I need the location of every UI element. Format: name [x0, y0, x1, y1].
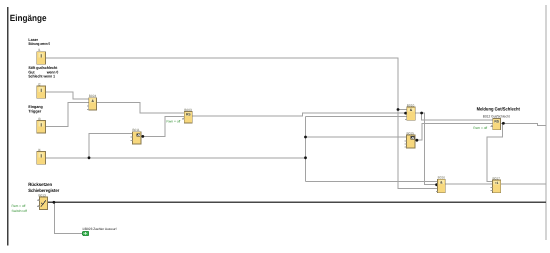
svg-text:I3: I3 [38, 117, 41, 121]
wire B012 feedback to B017.in1 [487, 123, 502, 181]
svg-text:B016: B016 [438, 176, 446, 180]
svg-text:Rem = off: Rem = off [473, 126, 487, 130]
junction B012 output [502, 122, 505, 125]
svg-text:Störung wenn 0: Störung wenn 0 [28, 41, 50, 46]
latching relay B012 (RS) [491, 119, 501, 130]
wire B024 out to B003.S [97, 103, 185, 113]
svg-text:Rem = off: Rem = off [166, 120, 180, 124]
wire B003 out to B010.in2 [192, 113, 407, 116]
junction at B010.in2 [404, 112, 407, 115]
svg-text:B003: B003 [184, 108, 192, 112]
junction B011 output [141, 135, 144, 138]
svg-text:B011: B011 [132, 128, 139, 132]
svg-text:Schieberegister: Schieberegister [28, 188, 59, 193]
wire B012 out to right edge [501, 123, 546, 125]
wire B011 out to B003.R [141, 116, 184, 136]
wire trigger to B010.in3 [306, 115, 407, 117]
wire trigger to B016.in1 [306, 180, 438, 182]
wire I4 trigger net horizontal [46, 157, 306, 159]
wire trigger to B015.in1 [306, 136, 407, 138]
wire trigger vertical [305, 116, 307, 181]
wire I2 to B024.in1 [46, 92, 89, 99]
svg-text:B013: B013 [38, 193, 46, 197]
svg-text:RS: RS [186, 113, 191, 117]
svg-text:Meldung Gut/Schlecht: Meldung Gut/Schlecht [477, 106, 521, 111]
wire branch I4 to B011.in1 [89, 134, 132, 158]
xor B017 [491, 176, 501, 192]
edge-trigger B015 [405, 131, 415, 148]
junction I1 net at B010.in1 [397, 108, 400, 111]
svg-text:Rem = off: Rem = off [12, 204, 26, 208]
softkey B013 [37, 193, 47, 209]
input I3 [37, 117, 46, 133]
junction I4 wire to B011 branch [88, 156, 91, 159]
wire B017 out to right edge [501, 183, 546, 185]
wire B016 out to B017.in2 [445, 183, 492, 185]
junction B015 output [416, 139, 419, 142]
junction B013 output [53, 201, 56, 204]
junction trigger net at I4 wire [304, 156, 307, 159]
svg-text:1/B023 Zaehler Auswurf: 1/B023 Zaehler Auswurf [82, 227, 116, 231]
wire B015 out to B012.R [415, 123, 493, 140]
input I1 [37, 48, 46, 64]
open connector to B023 [82, 227, 116, 236]
svg-text:Trigger: Trigger [28, 109, 41, 114]
svg-text:=1: =1 [495, 181, 499, 185]
svg-text:Schlecht wenn 1: Schlecht wenn 1 [28, 73, 55, 78]
input I2 [37, 82, 46, 98]
wire B010 out branch to B012.S [415, 113, 493, 120]
page border left [7, 7, 9, 246]
wire I1 net: I1 out to B010.in1 and B016.in3 [46, 58, 438, 188]
wire B013 branch to connector [55, 202, 83, 233]
svg-text:I4: I4 [38, 148, 41, 152]
svg-text:B015: B015 [407, 131, 415, 135]
junction B010 output [420, 112, 423, 115]
svg-text:RS: RS [494, 120, 499, 124]
and-gate B024 [87, 94, 97, 110]
junction trigger net to B015.in1 [304, 136, 307, 139]
latching relay B003 (RS) [182, 108, 192, 123]
svg-text:I1: I1 [38, 48, 41, 52]
svg-text:B024: B024 [89, 94, 97, 98]
input I4 [37, 148, 46, 164]
svg-text:Rücksetzen: Rücksetzen [28, 182, 52, 187]
svg-text:B017: B017 [493, 176, 501, 180]
svg-text:B010: B010 [407, 103, 415, 107]
and-gate B016 [436, 176, 446, 193]
wire I3 to B024.in2 [46, 103, 89, 127]
svg-text:I2: I2 [38, 82, 41, 86]
page border right [545, 5, 547, 240]
svg-text:B012 Gut/Schlecht: B012 Gut/Schlecht [483, 114, 510, 118]
and-gate B010 [405, 103, 415, 120]
svg-text:Eingänge: Eingänge [10, 13, 47, 23]
edge-trigger B011 [131, 128, 141, 144]
junction at B016.in2 [435, 183, 438, 186]
svg-text:Switch=off: Switch=off [12, 209, 28, 213]
wire B010 out branch to B016.in2 [422, 113, 438, 185]
wire B013 out dark long [48, 201, 546, 203]
